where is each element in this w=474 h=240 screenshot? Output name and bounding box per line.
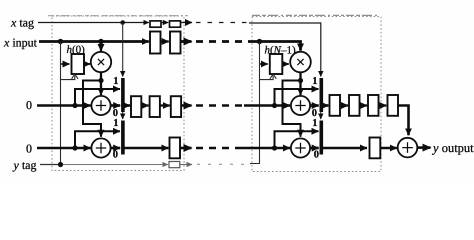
wire: mux S4 to row2 reg PE2 [323, 147, 367, 150]
svg-text:x tag: x tag [10, 16, 34, 30]
wire: y tag out arrow PE1 [180, 164, 192, 166]
wire: row1 reg2-reg3 PE1 [160, 104, 170, 106]
wire: adder A2 output into mux S2 [111, 147, 121, 150]
multiplier M2 times symbol [297, 59, 303, 65]
wire: row1 reg3-reg4 PE2 [379, 104, 387, 106]
wire: row2 line into PE2 [241, 147, 290, 150]
wire: coefficient/clock vertical PE1 [60, 42, 62, 165]
wire: product branch to adder A2 top PE1 [83, 81, 101, 137]
node: row2 junction PE2 [272, 145, 277, 150]
wire: coefficient input arrow into h(N-1) register [260, 63, 268, 65]
svg-text:0: 0 [113, 108, 118, 119]
wire: coefficient/clock vertical PE2 [250, 42, 260, 164]
register: coefficient register h(N-1) [270, 54, 283, 74]
node: x input junction at coefficient tap PE1 [58, 39, 63, 44]
wire: x input line PE2 turning into multiplier M2 [249, 42, 301, 51]
adder A1 plus symbol [96, 100, 106, 110]
node: row1 junction PE1 [72, 103, 77, 108]
svg-text:1: 1 [312, 76, 317, 87]
scan noise row above PE2 [252, 14, 378, 16]
register: row1 reg1 PE2 [330, 95, 341, 116]
svg-text:1: 1 [113, 118, 118, 129]
wire: clock link to vertical PE1 [61, 76, 75, 80]
mux bar S4 [320, 121, 324, 155]
mux bar S3 [320, 78, 324, 112]
svg-text:y tag: y tag [13, 158, 37, 172]
node: row2 junction PE1 [72, 145, 77, 150]
wire: row1 bypass to mux S3 [275, 89, 319, 106]
register: tag reg 1 PE1 [150, 21, 161, 27]
wire: row1 reg1-reg2 PE2 [340, 104, 348, 106]
final adder A5 circle [398, 138, 418, 158]
wire: y tag dashed link [197, 163, 248, 165]
wire: x tag line PE1 [38, 22, 149, 24]
wire: row1 input line PE1 [37, 104, 91, 107]
adder A2 circle [91, 138, 110, 157]
register: x reg 2 PE1 [170, 32, 181, 54]
register: tag reg 2 PE1 [170, 21, 181, 27]
wire: x reg1-reg2 PE1 [161, 40, 169, 42]
wire: row1 to final adder top [398, 106, 409, 136]
wire: drop to multiplier M1 [100, 42, 102, 52]
wire: row1 out arrow PE1 [181, 104, 191, 107]
svg-text:y output: y output [431, 141, 474, 155]
mux select line S1 to S2 [122, 112, 124, 119]
register: y tag reg PE1 [169, 162, 180, 168]
wire: multiplier output drop PE1 [100, 72, 102, 81]
wire: product to adder A1 top [100, 81, 102, 96]
wire: h(N-1) to multiplier M2 [282, 63, 288, 65]
wire: row1 reg1-reg2 PE1 [141, 104, 148, 106]
register: row1 reg4 [388, 95, 399, 116]
wire: row2 dashed link [196, 147, 241, 150]
wire: tag reg1-reg2 PE1 [161, 22, 168, 24]
wire: row2 input line PE1 [37, 147, 91, 150]
wire: row2 out arrow PE1 [180, 147, 192, 150]
wire: adder A1 output into mux S1 [111, 104, 121, 107]
multiplier M2 circle [290, 52, 311, 73]
node: multiplier output junction PE2 [298, 78, 303, 83]
wire: product to adder A3 top [299, 81, 301, 96]
wire: row2 bypass to mux S2 [75, 131, 120, 148]
multiplier M1 times symbol [98, 59, 104, 65]
wire: y output arrow [417, 146, 430, 149]
mux select line from x tag into S1 [122, 23, 124, 77]
node: row1 junction PE2 [272, 103, 277, 108]
node: y tag junction at clock vertical [58, 162, 63, 167]
node: multiplier output junction PE1 [98, 78, 103, 83]
wire: adder A3 output into mux S3 [310, 104, 319, 107]
svg-text:0: 0 [314, 150, 319, 161]
node: x tag junction PE1 [120, 20, 125, 25]
wire: mux S2 to row2 reg PE1 [124, 147, 168, 150]
mux select line S3 to S4 [320, 112, 322, 119]
svg-text:1: 1 [312, 118, 317, 129]
register: row1 reg3 PE1 [171, 96, 181, 117]
adder A4 circle [291, 138, 310, 157]
register: row1 reg2 PE2 [349, 95, 360, 116]
mux bar S2 [121, 121, 125, 155]
adder A3 circle [291, 96, 310, 115]
wire: clock link to vertical PE2 [260, 76, 274, 80]
wire: row1 bypass to mux S1 [75, 89, 120, 106]
wire: x out arrow PE1 [181, 40, 192, 43]
clock wedge under h(0) register [72, 74, 78, 79]
PE1 dashed box [52, 16, 184, 171]
clock wedge under h(N-1) register [270, 74, 276, 79]
register: x reg 1 PE1 [150, 32, 161, 54]
svg-text:1: 1 [113, 76, 118, 87]
svg-text:0: 0 [113, 150, 118, 161]
node: x input junction at coefficient tap PE2 [257, 39, 262, 44]
svg-text:0: 0 [26, 98, 32, 112]
adder A3 plus symbol [295, 100, 305, 110]
multiplier M1 circle [91, 52, 111, 72]
wire: x input line PE1 [39, 40, 149, 43]
svg-text:0: 0 [312, 108, 317, 119]
wire: tag out arrow PE1 [181, 22, 193, 24]
register: coefficient register h(0) [72, 54, 85, 74]
wire: x tag line PE2 turning down to muxes [249, 23, 321, 77]
register: row1 reg3 PE2 [368, 95, 379, 116]
node: x input junction at multiplier tap PE1 [98, 39, 103, 44]
wire: x dashed link [196, 40, 249, 43]
wire: h(0) to multiplier [84, 63, 90, 65]
wire: product branch to adder A4 top PE2 [283, 81, 301, 137]
wire: tag dashed link [196, 22, 249, 24]
wire: y tag line PE1 [40, 164, 62, 166]
wire: coefficient input arrow into h(0) register [61, 63, 70, 65]
svg-text:0: 0 [26, 142, 32, 156]
adder A1 circle [91, 96, 110, 115]
final adder A5 plus symbol [402, 142, 413, 153]
wire: row1 line into PE2 [244, 104, 290, 107]
register: row2 reg PE2 [370, 138, 381, 159]
wire: row2 bypass to mux S4 [275, 131, 319, 148]
register: row1 reg1 PE1 [131, 96, 141, 117]
wire: row2 reg to final adder [380, 147, 397, 150]
svg-text:x input: x input [3, 36, 38, 50]
PE2 dashed box [252, 17, 381, 172]
wire: mux S3 to row1 reg1 PE2 [323, 104, 329, 107]
adder A4 plus symbol [295, 143, 305, 153]
wire: adder A4 output into mux S4 [310, 147, 319, 150]
wire: multiplier output drop PE2 [299, 72, 301, 80]
mux bar S1 [121, 78, 125, 112]
scan noise row above PE1 [48, 15, 188, 17]
wire: row1 reg2-reg3 PE2 [360, 104, 368, 106]
wire: mux S1 to row1 reg1 [124, 104, 130, 107]
register: row2 reg PE1 [170, 138, 181, 159]
wire: row1 dashed link [196, 104, 244, 107]
register: row1 reg2 PE1 [150, 96, 160, 117]
adder A2 plus symbol [96, 143, 106, 153]
